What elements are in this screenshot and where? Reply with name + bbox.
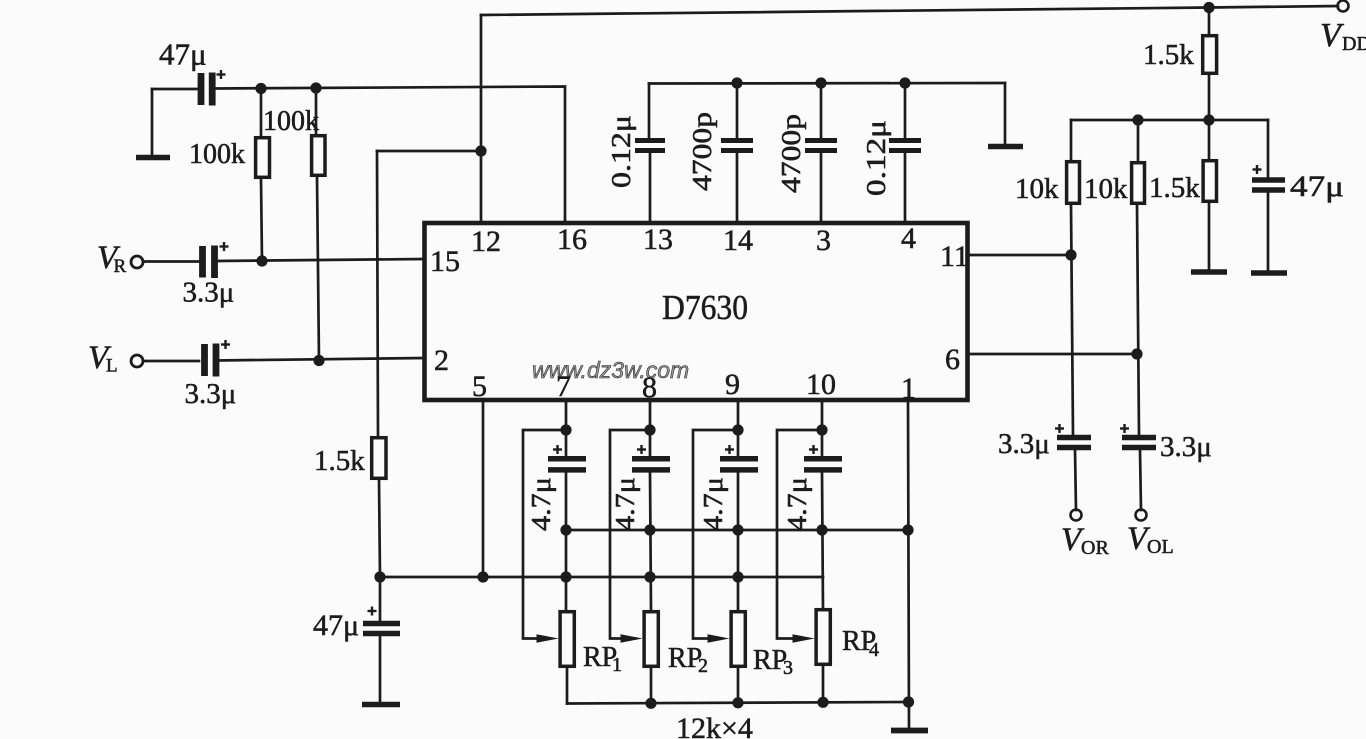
svg-text:4.7μ: 4.7μ: [782, 477, 812, 531]
capacitor C9 plus: [1120, 424, 1129, 433]
capacitor C13 4.7u plates: [720, 459, 758, 470]
capacitor C8 3.3u plates: [1057, 438, 1091, 448]
wire RP1 bottom lead: [566, 668, 569, 704]
wire top filter rail y83: [649, 82, 1005, 85]
potentiometer RP1 body: [560, 612, 574, 667]
svg-text:3: 3: [783, 657, 793, 679]
ground G6 bottom right: [891, 728, 928, 734]
wire R1 bottom lead: [261, 179, 262, 261]
svg-text:11: 11: [940, 240, 969, 273]
capacitor C13 plus: [725, 445, 734, 454]
node dot C14 bottom: [816, 524, 827, 535]
svg-text:15: 15: [430, 245, 460, 278]
svg-text:9: 9: [725, 368, 740, 401]
wire C15 top lead: [379, 577, 382, 621]
node dot y577 RP3: [732, 571, 743, 582]
capacitor C7 0.12u plates: [889, 141, 921, 151]
capacitor C6 4700p plates: [805, 141, 837, 151]
svg-text:L: L: [106, 356, 118, 377]
svg-text:4.7μ: 4.7μ: [610, 477, 640, 531]
wire R1 top lead: [260, 88, 263, 136]
terminal VL: [131, 355, 143, 367]
capacitor C1 plus: [217, 70, 226, 79]
wire pin8 column: [649, 400, 652, 456]
wire bias rail y120: [1071, 119, 1268, 122]
wire R7 leads: [1208, 120, 1211, 159]
wire C10 leads: [1267, 120, 1270, 178]
node dot VL line R2: [313, 355, 324, 366]
wire pin3 lead: [820, 152, 823, 223]
svg-text:3.3μ: 3.3μ: [183, 277, 235, 309]
wire R2 top lead: [315, 88, 318, 134]
resistor 1.5k R4: [1203, 36, 1217, 74]
node dot y701 RP2: [645, 698, 656, 709]
svg-text:16: 16: [557, 223, 587, 256]
wire pin14 lead: [736, 152, 739, 223]
wire VR input to C2: [143, 260, 199, 263]
terminal VOL: [1136, 510, 1147, 521]
wire R2 bottom lead: [317, 177, 319, 361]
wire RP4 bottom lead: [822, 666, 825, 702]
svg-text:10k: 10k: [1084, 173, 1128, 205]
svg-text:4: 4: [901, 222, 916, 255]
capacitor C11 4.7u plates: [548, 459, 586, 470]
svg-text:4700p: 4700p: [776, 114, 806, 193]
svg-text:5: 5: [472, 370, 487, 403]
wire RP1 wiper hook: [523, 430, 566, 639]
wire C1 left lead to ground: [152, 88, 197, 91]
wire ground lead left: [151, 89, 154, 155]
svg-text:OL: OL: [1147, 536, 1174, 558]
svg-text:14: 14: [723, 224, 753, 257]
svg-text:7: 7: [556, 370, 571, 403]
node dot C12 bottom: [644, 524, 655, 535]
wire VL input to C3: [143, 360, 199, 363]
capacitor C2 plus: [220, 242, 229, 251]
svg-text:6: 6: [945, 343, 960, 376]
wire C3 to pin2: [216, 358, 424, 361]
arrowhead RP1 wiper: [537, 634, 559, 643]
node dot y577 RP1: [560, 571, 571, 582]
svg-text:1.5k: 1.5k: [1143, 39, 1194, 71]
wire pin10 column: [821, 400, 824, 456]
wire RP2 bottom lead: [650, 668, 653, 703]
resistor 100k R1: [256, 138, 270, 178]
wire pin6 to node: [967, 353, 1137, 356]
arrowhead RP4 wiper: [793, 634, 815, 643]
svg-text:0.12μ: 0.12μ: [606, 115, 636, 188]
wire C15 bottom lead to ground: [379, 636, 382, 704]
terminal VR: [131, 256, 143, 268]
svg-text:3.3μ: 3.3μ: [185, 378, 237, 410]
node dot y577 pin5: [477, 571, 488, 582]
resistor 10k R5: [1067, 162, 1080, 204]
node dot pin7 hook: [560, 424, 571, 435]
wire RP3 wiper hook: [693, 430, 738, 639]
potentiometer RP3 body: [731, 612, 745, 667]
node dot pin11: [1065, 249, 1076, 260]
wire C5 top lead: [736, 83, 739, 139]
wire C6 top lead: [820, 83, 823, 139]
arrowhead RP3 wiper: [708, 634, 730, 643]
ground G2 top filter: [988, 144, 1023, 150]
capacitor C11 plus: [553, 445, 562, 454]
capacitor C14 4.7u plates: [804, 459, 842, 470]
capacitor C9 3.3u plates: [1122, 438, 1156, 448]
node dot y701 pin1: [903, 696, 914, 707]
wire pin7 column: [565, 400, 568, 456]
wire pin11 to node: [967, 254, 1071, 257]
svg-text:3.3μ: 3.3μ: [998, 428, 1050, 460]
node dot pin8 hook: [644, 424, 655, 435]
node dot C13 bottom: [732, 524, 743, 535]
svg-text:100k: 100k: [263, 106, 319, 137]
capacitor C8 plus: [1055, 424, 1064, 433]
wire C9 bottom lead to VOL: [1140, 450, 1141, 510]
node dot C6 top: [815, 77, 826, 88]
wire x377 vertical to R3: [377, 151, 378, 436]
wire VDD top rail: [481, 6, 1338, 15]
terminal VOR: [1071, 510, 1082, 521]
capacitor C15 plus: [368, 607, 377, 616]
capacitor C5 4700p plates: [721, 141, 753, 151]
wire C7 top lead: [904, 83, 907, 139]
potentiometer RP4 body: [816, 610, 830, 665]
wire node y151 horizontal: [377, 150, 481, 153]
node dot C11 bottom: [560, 524, 571, 535]
resistor 1.5k R3: [372, 438, 386, 479]
terminal VDD: [1338, 1, 1349, 12]
wire pin13 lead to C4: [649, 152, 652, 223]
svg-text:OR: OR: [1081, 537, 1109, 559]
svg-text:47μ: 47μ: [313, 609, 359, 642]
wire x1137 R6 bottom to C9: [1137, 205, 1139, 434]
wire ground lead x1005: [1004, 83, 1007, 146]
svg-text:10: 10: [806, 368, 836, 401]
svg-text:4.7μ: 4.7μ: [526, 477, 556, 531]
node dot top rail / R4: [1203, 2, 1214, 13]
IC D7630 body: [425, 223, 968, 400]
svg-text:13: 13: [643, 223, 673, 256]
wire bias bus y577: [380, 576, 823, 579]
svg-text:10k: 10k: [1015, 173, 1059, 205]
node dot R6 top: [1132, 114, 1143, 125]
svg-text:2: 2: [434, 344, 449, 377]
potentiometer RP2 body: [644, 612, 658, 667]
wire R6 top lead: [1137, 120, 1140, 161]
wire C1 right to pin16: [215, 87, 565, 224]
ground G1 left input: [136, 155, 170, 161]
svg-text:0.12μ: 0.12μ: [861, 120, 891, 196]
svg-text:1.5k: 1.5k: [314, 445, 365, 477]
svg-text:R: R: [114, 256, 127, 277]
capacitor C15 47u plates: [363, 624, 400, 634]
resistor 1.5k R7: [1203, 161, 1216, 202]
arrowhead RP2 wiper: [621, 634, 643, 643]
wire pin9 column: [737, 400, 740, 456]
resistor 10k R6: [1132, 163, 1145, 204]
wire R4 top lead: [1208, 8, 1211, 35]
wire R3 bottom lead: [379, 480, 380, 577]
wire pin5 lead: [482, 400, 485, 577]
svg-text:12: 12: [471, 225, 501, 258]
capacitor C12 plus: [637, 445, 646, 454]
node dot pin10 hook: [816, 424, 827, 435]
node dot x481 y151: [475, 145, 486, 156]
svg-text:2: 2: [698, 655, 708, 677]
node dot pin9 hook: [732, 424, 743, 435]
resistor 100k R2: [312, 136, 325, 176]
wire RP3 bottom lead: [737, 668, 740, 703]
capacitor C1 47u plates: [201, 73, 212, 106]
svg-text:4.7μ: 4.7μ: [698, 477, 728, 531]
wire C8 bottom lead to VOR: [1075, 450, 1076, 510]
svg-text:3: 3: [816, 224, 831, 257]
svg-text:DD: DD: [1342, 33, 1366, 55]
capacitor C14 plus: [809, 445, 818, 454]
svg-text:3.3μ: 3.3μ: [1160, 431, 1212, 463]
node dot C5 top: [731, 77, 742, 88]
ground G5 under C15: [362, 702, 400, 708]
wire pin4 lead: [904, 152, 907, 223]
node dot VR line R1: [256, 255, 267, 266]
svg-text:47μ: 47μ: [159, 37, 207, 72]
wire C2 to pin15: [216, 259, 424, 261]
capacitor C12 4.7u plates: [632, 459, 670, 470]
capacitor C10 47u plates: [1252, 180, 1285, 190]
wire R4 bottom lead: [1208, 75, 1211, 120]
node dot R2 top: [310, 82, 321, 93]
node dot y577 RP2: [644, 571, 655, 582]
capacitor C2 3.3u plates: [203, 246, 215, 279]
capacitor C3 3.3u plates: [205, 344, 217, 377]
wire cap bus y530: [566, 529, 908, 532]
svg-text:100k: 100k: [189, 139, 245, 170]
wire x1071 R5 bottom to C8: [1071, 205, 1073, 434]
node dot y530 pin1: [902, 524, 913, 535]
wire pin12 vertical from VDD rail: [480, 15, 483, 223]
wire pin1 column to ground: [908, 400, 909, 729]
node dot R7 top: [1203, 114, 1214, 125]
svg-text:12k×4: 12k×4: [676, 712, 753, 739]
node dot y701 RP4: [817, 697, 828, 708]
svg-text:4700p: 4700p: [687, 112, 717, 191]
svg-text:8: 8: [642, 371, 657, 404]
svg-text:1: 1: [612, 654, 622, 676]
wire R5 top lead: [1070, 120, 1073, 160]
svg-text:D7630: D7630: [662, 288, 748, 327]
capacitor C10 plus: [1253, 165, 1262, 174]
wire bottom bus y701: [567, 702, 908, 704]
node dot y701 RP3: [732, 697, 743, 708]
svg-text:47μ: 47μ: [1290, 170, 1344, 203]
wire RP4 wiper hook: [777, 430, 822, 639]
node dot y577 x380: [374, 571, 385, 582]
node dot C7 top: [899, 77, 910, 88]
svg-text:4: 4: [869, 639, 879, 661]
svg-text:1: 1: [901, 372, 916, 405]
ground G3 under R7: [1191, 269, 1227, 275]
svg-text:1.5k: 1.5k: [1149, 172, 1200, 204]
wire RP2 wiper hook: [610, 430, 650, 639]
ground G4 under C10: [1251, 270, 1287, 276]
node dot R1 top: [255, 83, 266, 94]
capacitor C4 0.12u plates: [635, 141, 665, 151]
capacitor C3 plus: [221, 340, 230, 349]
node dot pin6: [1131, 348, 1142, 359]
wire C4 top lead: [648, 84, 651, 140]
